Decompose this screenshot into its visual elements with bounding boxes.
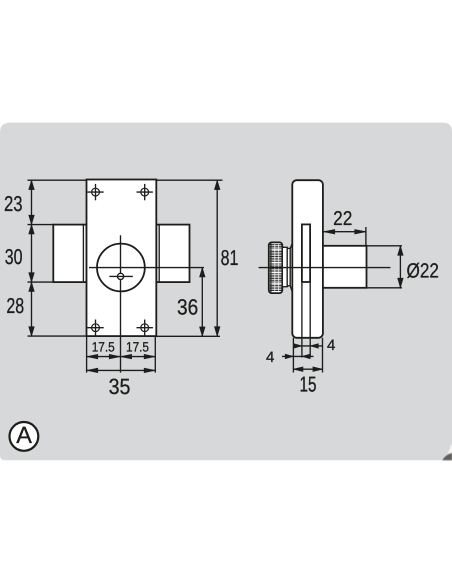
right bolt block <box>156 225 189 283</box>
svg-text:30: 30 <box>5 245 23 269</box>
svg-text:17.5: 17.5 <box>126 339 149 354</box>
knurled knob <box>269 242 283 293</box>
81 extension line top-right <box>156 179 222 181</box>
arrowheads 35 <box>87 368 156 373</box>
arrowheads 17.5 spans <box>87 354 156 359</box>
extension line left at block top <box>28 224 54 226</box>
dimension line O22 <box>399 246 401 288</box>
lower 4 dim line <box>282 355 314 357</box>
cylinder barrel <box>323 246 367 288</box>
knob neck <box>282 247 287 286</box>
dimension line 15 <box>293 368 322 370</box>
svg-text:35: 35 <box>109 374 131 399</box>
vertical centerline <box>120 235 122 372</box>
arrowheads left dim chain <box>29 180 35 336</box>
collar cone <box>290 243 292 292</box>
side plate <box>292 180 323 338</box>
A badge circle <box>10 422 39 451</box>
dimension line 17.5+17.5 <box>87 356 156 358</box>
upper 4 dim line <box>293 345 322 347</box>
bottom extension line from plate left edge <box>86 336 88 373</box>
81/36 extension line bottom-right <box>156 335 220 337</box>
dimension line 22 <box>324 231 366 233</box>
cylinder circle <box>97 244 145 292</box>
slot right extension line <box>309 283 311 358</box>
arrowheads 22 <box>324 229 366 234</box>
horizontal centerline <box>89 267 204 269</box>
screw hole bottom-left <box>87 320 103 336</box>
svg-text:Ø22: Ø22 <box>407 259 439 282</box>
svg-text:36: 36 <box>177 295 198 320</box>
slot left extension line <box>301 283 303 358</box>
bolt slot <box>302 224 310 282</box>
side centerline <box>259 267 391 269</box>
dimension line 36 <box>201 268 203 337</box>
svg-text:17.5: 17.5 <box>92 339 115 354</box>
O22 top extension line <box>367 245 403 247</box>
dimension line 23/30/28 <box>31 180 33 336</box>
gray drawing panel <box>0 123 452 461</box>
bottom extension line from plate right edge <box>154 336 156 373</box>
front plate <box>87 180 157 337</box>
svg-text:4: 4 <box>266 349 274 366</box>
plate left extension line (bottom) <box>292 338 294 373</box>
svg-text:28: 28 <box>6 294 24 318</box>
svg-text:22: 22 <box>333 208 352 230</box>
keyhole pin small circle <box>118 273 124 279</box>
plate right extension line (bottom) <box>322 338 324 373</box>
left block inner edge line <box>82 225 84 283</box>
22 extension line <box>365 227 367 246</box>
page curl dark shadow wedge <box>442 453 452 460</box>
arrowheads 36 <box>200 268 206 337</box>
screw hole top-right <box>137 184 153 200</box>
O22 bottom extension line <box>367 287 403 289</box>
svg-text:15: 15 <box>300 372 317 396</box>
page curl white highlight bottom-right <box>440 445 452 461</box>
svg-text:4: 4 <box>327 337 335 354</box>
dimension line 35 <box>87 369 156 371</box>
arrowheads O22 <box>398 246 404 288</box>
extension line top-left (23 dim, plate top) <box>28 179 87 181</box>
extension line bottom-left (plate bottom) <box>28 335 87 337</box>
screw hole top-left <box>87 184 103 200</box>
extension line left at block bottom <box>28 281 54 283</box>
arrowheads 81 <box>214 180 220 336</box>
arrowheads upper 4 (slot width) <box>294 344 319 349</box>
svg-text:A: A <box>16 422 32 448</box>
arrowheads lower 4 <box>285 354 310 359</box>
left bolt block <box>53 225 86 283</box>
knob collar ring <box>287 248 290 285</box>
svg-text:81: 81 <box>221 246 239 270</box>
keyhole pin cross line <box>109 275 132 277</box>
svg-text:23: 23 <box>4 192 23 216</box>
dimension line 81 <box>216 180 218 336</box>
arrowheads 15 <box>293 367 322 372</box>
right block inner edge line <box>158 225 160 283</box>
screw hole bottom-right <box>137 320 153 336</box>
